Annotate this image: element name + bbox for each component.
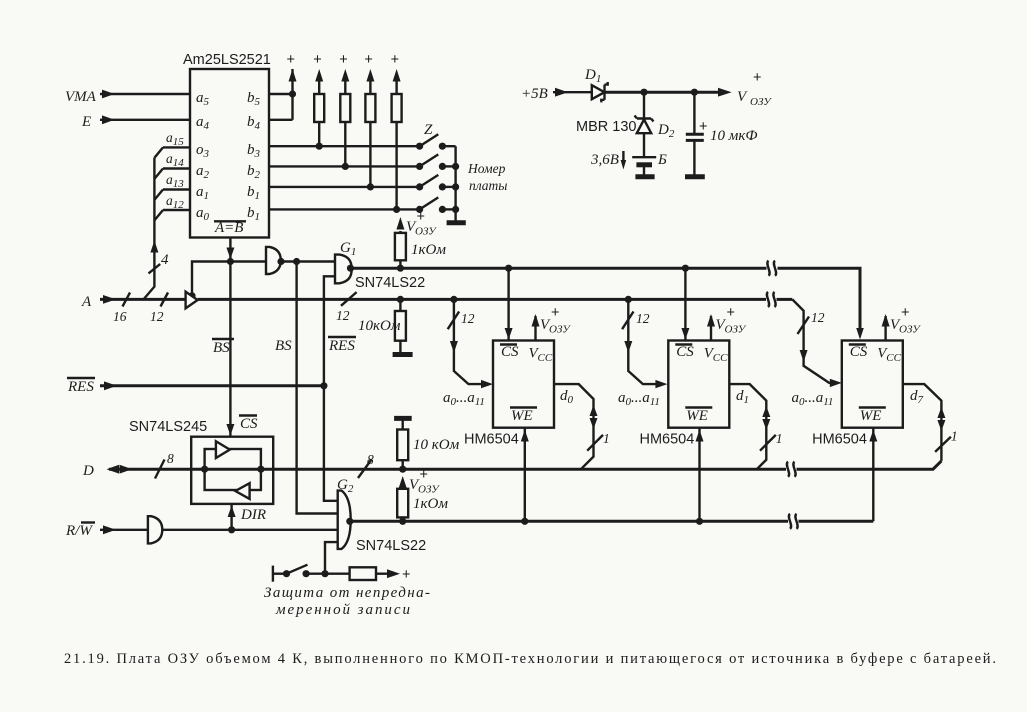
svg-text:3,6В: 3,6В (590, 152, 619, 168)
svg-text:BS: BS (213, 340, 230, 356)
svg-text:ОЗУ: ОЗУ (549, 324, 571, 336)
svg-text:8: 8 (167, 451, 174, 466)
svg-text:WE: WE (860, 408, 882, 424)
svg-text:1кОм: 1кОм (413, 496, 448, 512)
wire address bus chip3 (792, 299, 842, 408)
wire D bus right (797, 461, 942, 469)
node a15 (154, 130, 190, 158)
wire A input (81, 293, 186, 325)
svg-text:10кОм: 10кОм (358, 318, 401, 334)
svg-text:CS: CS (850, 344, 868, 360)
switch Z4 (416, 197, 459, 213)
wire b5 pullup (269, 52, 297, 98)
svg-text:+5В: +5В (521, 86, 548, 102)
svg-text:платы: платы (469, 178, 507, 193)
resistor 1kOhm pullup G1 (395, 209, 446, 268)
svg-text:CC: CC (538, 352, 553, 364)
wire E input (81, 114, 190, 130)
svg-text:Z: Z (424, 122, 433, 138)
svg-text:10 кОм: 10 кОм (413, 437, 460, 453)
svg-text:Номер: Номер (467, 161, 506, 176)
node a14 (154, 151, 190, 179)
svg-text:+: + (364, 52, 372, 68)
wire b4 to b5 (269, 119, 293, 121)
svg-text:R/W: R/W (65, 523, 93, 539)
svg-text:A: A (81, 294, 92, 310)
svg-text:+: + (420, 467, 428, 483)
capacitor C1 10uF (686, 92, 758, 175)
wire RW to G2 (162, 529, 337, 531)
svg-text:SN74LS22: SN74LS22 (356, 538, 426, 554)
wire +5V input (521, 86, 592, 102)
label write protect (264, 585, 430, 618)
wire RW input (65, 523, 148, 540)
wire CS chip1 (505, 268, 513, 340)
svg-text:E: E (81, 114, 91, 130)
wire address bus chip2 (618, 296, 667, 408)
resistor pullup R3 (364, 52, 375, 190)
wire b3 (269, 145, 420, 147)
break D bus (787, 462, 796, 477)
svg-text:+: + (391, 52, 399, 68)
svg-text:ОЗУ: ОЗУ (415, 226, 437, 238)
wire BS vertical (275, 262, 338, 514)
ram U5 HM6504 (812, 341, 903, 448)
svg-text:12: 12 (461, 311, 475, 326)
break A bus (767, 292, 776, 307)
svg-text:RES: RES (328, 338, 355, 354)
wire WE chip1 (521, 428, 529, 522)
svg-text:1: 1 (776, 431, 783, 446)
svg-text:1: 1 (951, 429, 958, 444)
wire b1 lsb (269, 208, 420, 210)
wire G2 output WE bus (351, 518, 874, 525)
svg-text:WE: WE (511, 408, 533, 424)
wire RES input (67, 378, 324, 395)
wire b2 (269, 165, 420, 167)
wire +5V rail (605, 88, 732, 97)
break CS bus (767, 261, 776, 276)
svg-text:MBR 130: MBR 130 (576, 119, 636, 135)
svg-text:+: + (339, 52, 347, 68)
resistor pullup R1 (313, 52, 324, 150)
wire BSbar vertical (212, 262, 258, 437)
wire A=B output (226, 238, 234, 266)
svg-text:HM6504: HM6504 (640, 432, 695, 448)
svg-text:ОЗУ: ОЗУ (899, 324, 921, 336)
buffer A (186, 292, 198, 309)
switch write protect (273, 565, 350, 582)
svg-text:HM6504: HM6504 (812, 432, 867, 448)
svg-text:+: + (287, 52, 295, 68)
svg-text:SN74LS245: SN74LS245 (129, 419, 207, 435)
svg-text:CS: CS (240, 416, 258, 432)
node a12 (154, 193, 190, 220)
svg-text:ОЗУ: ОЗУ (418, 484, 440, 496)
gate G1 (335, 240, 425, 291)
ram U3 HM6504 (464, 341, 554, 448)
svg-text:+: + (313, 52, 321, 68)
svg-text:+: + (699, 119, 707, 135)
wire data d0 chip1 (554, 384, 610, 469)
label Vram rail (737, 70, 772, 108)
svg-text:Am25LS2521: Am25LS2521 (183, 52, 271, 68)
switch Z2 (416, 154, 459, 170)
battery B 3.6V (590, 151, 667, 175)
wire Vcc chip3 (882, 305, 922, 341)
gate G3 (266, 247, 335, 274)
wire WE chip3 (869, 428, 877, 522)
ground switch bus (447, 220, 466, 225)
wire DIR (228, 504, 266, 534)
wire address bus chip1 (443, 296, 493, 408)
gate RW buffer (148, 516, 162, 543)
wire address tap bus 4 (144, 158, 170, 300)
svg-text:ОЗУ: ОЗУ (725, 324, 747, 336)
wire G2 input protection (321, 542, 337, 577)
svg-text:D: D (82, 463, 94, 479)
wire data d7 chip3 (904, 384, 958, 461)
svg-text:HM6504: HM6504 (464, 432, 519, 448)
wire Vcc chip1 (532, 305, 572, 341)
wire RES vertical (320, 276, 356, 501)
node a13 (154, 172, 190, 200)
svg-text:10 мкФ: 10 мкФ (710, 128, 757, 144)
break WE bus (789, 514, 798, 529)
resistor 10kOhm D-line (394, 418, 459, 469)
svg-text:1: 1 (603, 431, 610, 446)
svg-text:SN74LS22: SN74LS22 (355, 275, 425, 291)
ground 10kOhm (393, 352, 413, 357)
svg-text:4: 4 (161, 252, 169, 268)
resistor pullup R4 (391, 52, 402, 213)
wire VMA input (65, 89, 190, 105)
label board number (467, 161, 507, 193)
svg-text:ОЗУ: ОЗУ (750, 96, 772, 108)
wire data d1 chip2 (729, 384, 782, 469)
wire WE chip2 (696, 428, 704, 522)
svg-text:12: 12 (811, 310, 825, 325)
svg-text:+: + (727, 305, 735, 321)
svg-text:21.19. Плата ОЗУ объемом 4 К,: 21.19. Плата ОЗУ объемом 4 К, выполненно… (64, 651, 996, 667)
switch Z1 (416, 122, 456, 150)
svg-text:12: 12 (150, 309, 164, 324)
svg-text:Защита от непредна-: Защита от непредна- (264, 585, 430, 601)
diode D1 MBR130 schottky (584, 67, 608, 102)
zener D2 (576, 92, 675, 157)
wire b1 (269, 186, 420, 188)
svg-text:CC: CC (886, 352, 901, 364)
resistor write protect (350, 567, 411, 583)
svg-text:CC: CC (713, 352, 728, 364)
svg-text:CS: CS (501, 344, 519, 360)
wire match node (188, 262, 266, 300)
wire A bus (198, 292, 793, 323)
svg-text:1кОм: 1кОм (411, 242, 446, 258)
ground capacitor (685, 174, 705, 179)
resistor pullup R2 (339, 52, 350, 170)
svg-text:+: + (901, 305, 909, 321)
svg-text:BS: BS (275, 338, 292, 354)
resistor 10kOhm A-line (358, 296, 406, 353)
svg-text:+: + (417, 209, 425, 225)
svg-text:12: 12 (336, 308, 350, 323)
switch Z3 (416, 175, 459, 191)
wire Vcc chip2 (707, 305, 747, 341)
comparator U1 Am25LS2521 (183, 52, 271, 238)
ground battery (635, 174, 654, 179)
svg-text:+: + (753, 70, 761, 86)
wire G1 output CS bus (352, 265, 864, 340)
svg-text:+: + (402, 567, 410, 583)
gate G2 (337, 477, 426, 554)
svg-text:12: 12 (636, 311, 650, 326)
svg-text:DIR: DIR (240, 507, 266, 523)
svg-text:VMA: VMA (65, 89, 97, 105)
wire D input (82, 451, 786, 479)
wire switch common (454, 146, 456, 221)
svg-text:8: 8 (367, 452, 374, 467)
resistor 1kOhm WE-line (397, 467, 448, 521)
svg-text:Б: Б (657, 152, 667, 168)
svg-text:меренной записи: меренной записи (275, 602, 410, 618)
svg-text:16: 16 (113, 309, 127, 324)
svg-text:WE: WE (686, 408, 708, 424)
wire CS chip2 (681, 268, 689, 340)
buffer U2 SN74LS245 (129, 419, 273, 504)
svg-text:CS: CS (676, 344, 694, 360)
svg-text:RES: RES (67, 379, 94, 395)
ram U4 HM6504 (640, 341, 730, 448)
svg-text:+: + (551, 305, 559, 321)
